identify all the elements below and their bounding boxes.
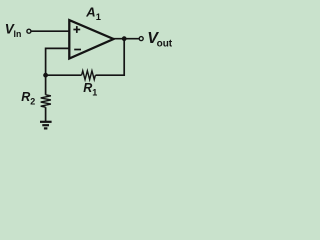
wire to ground (45, 107, 47, 121)
svg-text:1: 1 (96, 12, 101, 22)
wire inverting input (46, 48, 70, 75)
wire noninverting input (31, 30, 69, 32)
op-amp A1 (69, 4, 113, 58)
ground (40, 122, 52, 129)
wire feedback vertical from output (96, 39, 125, 75)
junction output node (122, 36, 127, 41)
node Vin (5, 21, 31, 39)
svg-text:R: R (21, 90, 30, 104)
wire output (113, 38, 140, 40)
svg-text:2: 2 (30, 97, 35, 107)
svg-text:1: 1 (92, 87, 97, 97)
svg-text:A: A (85, 4, 95, 19)
junction inverting node (43, 73, 48, 78)
wire feedback to inverting node (46, 74, 82, 76)
svg-text:In: In (14, 29, 22, 39)
node Vout (139, 30, 173, 49)
svg-text:out: out (157, 38, 173, 49)
resistor R2 (21, 90, 51, 107)
svg-text:R: R (83, 81, 92, 95)
resistor R1 (82, 71, 98, 98)
wire inverting node down (45, 75, 47, 95)
